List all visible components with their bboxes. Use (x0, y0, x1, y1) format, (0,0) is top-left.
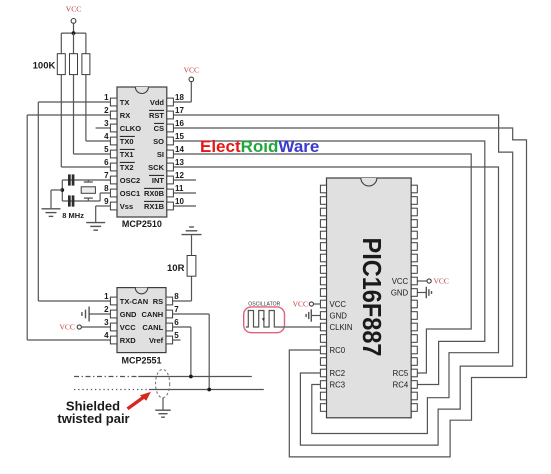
svg-text:6: 6 (104, 158, 109, 167)
svg-text:Vdd: Vdd (150, 98, 165, 107)
svg-text:17: 17 (175, 106, 184, 115)
svg-text:15: 15 (175, 132, 184, 141)
svg-text:4: 4 (104, 331, 109, 340)
svg-text:Vss: Vss (120, 202, 133, 211)
svg-text:13: 13 (175, 158, 184, 167)
svg-text:6: 6 (174, 318, 179, 327)
svg-text:VCC: VCC (434, 277, 449, 286)
svg-text:TX1: TX1 (120, 150, 134, 159)
svg-text:7: 7 (174, 305, 179, 314)
svg-text:10R: 10R (167, 263, 185, 274)
svg-text:RC0: RC0 (330, 346, 346, 355)
svg-text:8: 8 (174, 292, 179, 301)
svg-text:7: 7 (104, 171, 109, 180)
svg-text:VCC: VCC (184, 66, 199, 75)
svg-text:16: 16 (175, 119, 184, 128)
svg-text:CLKO: CLKO (120, 124, 141, 133)
svg-text:18: 18 (175, 93, 184, 102)
svg-text:3: 3 (104, 318, 109, 327)
svg-text:CS: CS (154, 124, 164, 133)
svg-text:VCC: VCC (330, 300, 347, 309)
svg-text:SCK: SCK (148, 163, 164, 172)
svg-text:SO: SO (153, 137, 164, 146)
svg-text:GND: GND (330, 311, 348, 320)
svg-text:TX-CAN: TX-CAN (120, 297, 148, 306)
svg-text:OSCILLATOR: OSCILLATOR (248, 302, 280, 308)
svg-text:12: 12 (175, 171, 184, 180)
svg-text:11: 11 (175, 184, 184, 193)
svg-text:RST: RST (149, 111, 164, 120)
svg-text:VCC: VCC (293, 300, 308, 309)
svg-text:9: 9 (104, 197, 109, 206)
svg-text:VCC: VCC (392, 277, 409, 286)
svg-text:CLKIN: CLKIN (330, 323, 353, 332)
svg-text:5: 5 (104, 145, 109, 154)
svg-text:MCP2551: MCP2551 (121, 355, 161, 365)
svg-text:RX1B: RX1B (144, 202, 165, 211)
svg-text:RS: RS (153, 297, 163, 306)
svg-text:RX0B: RX0B (144, 189, 165, 198)
svg-text:8 MHz: 8 MHz (62, 211, 84, 220)
svg-text:TX0: TX0 (120, 137, 134, 146)
svg-text:OSC1: OSC1 (120, 189, 140, 198)
svg-text:MCP2510: MCP2510 (122, 219, 162, 229)
svg-text:RXD: RXD (120, 336, 136, 345)
svg-text:RC5: RC5 (393, 369, 409, 378)
svg-text:RX: RX (120, 111, 130, 120)
svg-text:RC2: RC2 (330, 369, 346, 378)
svg-text:twisted pair: twisted pair (57, 411, 129, 426)
svg-text:GND: GND (391, 288, 409, 297)
svg-text:PIC16F887: PIC16F887 (357, 238, 387, 357)
svg-text:100K: 100K (33, 61, 56, 72)
svg-text:VCC: VCC (66, 5, 81, 14)
svg-text:8: 8 (104, 184, 109, 193)
svg-text:CANH: CANH (142, 310, 164, 319)
svg-text:2: 2 (104, 106, 109, 115)
svg-text:1: 1 (104, 93, 109, 102)
svg-text:TX: TX (120, 98, 130, 107)
svg-text:5: 5 (174, 331, 179, 340)
svg-text:RC4: RC4 (393, 380, 409, 389)
svg-text:INT: INT (152, 176, 165, 185)
svg-text:OSC2: OSC2 (120, 176, 140, 185)
svg-text:4: 4 (104, 132, 109, 141)
svg-text:SI: SI (157, 150, 164, 159)
svg-text:VCC: VCC (59, 323, 74, 332)
svg-text:14: 14 (175, 145, 184, 154)
svg-text:TX2: TX2 (120, 163, 134, 172)
svg-text:GND: GND (120, 310, 137, 319)
svg-text:RC3: RC3 (330, 380, 346, 389)
svg-text:VCC: VCC (120, 323, 136, 332)
svg-text:1: 1 (104, 292, 109, 301)
svg-text:10: 10 (175, 197, 184, 206)
svg-text:2: 2 (104, 305, 109, 314)
svg-text:CANL: CANL (142, 323, 163, 332)
svg-text:Vref: Vref (149, 336, 164, 345)
svg-text:3: 3 (104, 119, 109, 128)
svg-text:ElectRoidWare: ElectRoidWare (200, 137, 319, 156)
